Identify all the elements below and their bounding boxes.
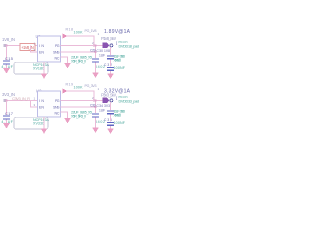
junction PG output	[93, 45, 95, 47]
svg-text:1.89V@1A: 1.89V@1A	[104, 29, 131, 35]
junction input node	[6, 45, 8, 47]
ground U2	[41, 129, 47, 134]
wire sense vertical	[95, 46, 97, 59]
input port marker	[3, 44, 7, 47]
svg-text:IN: IN	[39, 99, 44, 103]
ground right branch	[107, 74, 113, 79]
wire output net	[61, 45, 103, 47]
ground sense cap	[92, 73, 98, 78]
wire U1 gnd stem	[43, 62, 45, 74]
ground left input cap	[3, 123, 10, 129]
ground sense cap	[92, 128, 98, 133]
offpage port output	[103, 98, 110, 103]
svg-text:1UF: 1UF	[99, 108, 105, 112]
callout box U2	[14, 117, 48, 129]
svg-text:EN: EN	[39, 51, 44, 55]
capacitor C15	[3, 61, 10, 62]
wire sense cap to gnd	[95, 118, 97, 128]
svg-text:PG_1V8: PG_1V8	[85, 29, 97, 33]
svg-text:+1V8_IN: +1V8_IN	[21, 45, 34, 50]
svg-text:1V8: 1V8	[104, 49, 110, 53]
svg-text:PG: PG	[55, 44, 60, 48]
svg-text:NC: NC	[55, 111, 60, 115]
svg-text:X5R_6R3_0: X5R_6R3_0	[71, 59, 86, 63]
svg-text:C33: C33	[90, 104, 96, 108]
wire EN tie jog	[31, 46, 38, 53]
ground NC pin	[64, 118, 70, 123]
regulator U2	[38, 91, 61, 117]
svg-text:R18: R18	[66, 28, 74, 32]
svg-text:3V3: 3V3	[104, 104, 110, 108]
testpoint circle	[110, 99, 113, 102]
capacitor C17	[3, 116, 10, 117]
capacitor C29	[92, 59, 99, 60]
wire cap to gnd	[6, 120, 8, 123]
svg-text:X5R6V3: X5R6V3	[114, 114, 122, 118]
svg-text:SNS: SNS	[53, 105, 60, 109]
svg-text:C17: C17	[5, 111, 14, 116]
wire right branch	[110, 47, 112, 55]
wire left cap branch	[6, 46, 8, 61]
capacitor C32	[107, 67, 114, 68]
svg-text:P3V3_SW: P3V3_SW	[101, 93, 116, 98]
svg-text:C29: C29	[90, 49, 96, 53]
svg-text:EN: EN	[39, 106, 44, 110]
svg-text:SNS: SNS	[53, 50, 60, 54]
junction output sense	[95, 100, 97, 102]
ground NC pin	[64, 63, 70, 68]
wire right branch	[110, 102, 112, 110]
svg-text:XV330: XV330	[33, 122, 44, 126]
svg-text:mon: mon	[119, 40, 128, 44]
svg-text:NC: NC	[55, 56, 60, 60]
power symbol PG pullup	[63, 89, 68, 94]
wire input net	[7, 100, 38, 102]
svg-text:100K: 100K	[74, 86, 84, 90]
callout box U1	[14, 62, 48, 74]
wire PG net	[67, 36, 95, 46]
capacitor C36	[107, 122, 114, 123]
junction FB sense	[95, 51, 97, 53]
wire EN tie jog	[31, 101, 38, 108]
regulator U1	[38, 36, 61, 62]
wire U2 gnd stem	[43, 117, 45, 129]
offpage port output	[103, 43, 110, 48]
wire right branch gnd	[110, 126, 112, 129]
svg-text:100NF: 100NF	[114, 121, 126, 125]
svg-text:DVDD33_pad: DVDD33_pad	[119, 99, 140, 103]
ground right branch	[107, 129, 113, 134]
svg-text:C15: C15	[5, 56, 14, 61]
svg-text:IN: IN	[39, 44, 44, 48]
wire PG net	[67, 91, 95, 101]
capacitor C35	[107, 110, 114, 111]
wire left cap branch	[6, 101, 8, 116]
svg-text:C3V3_IN_R: C3V3_IN_R	[12, 96, 30, 101]
svg-text:mon: mon	[119, 95, 128, 99]
svg-text:X5R6V3: X5R6V3	[114, 59, 122, 63]
wire between caps	[110, 59, 112, 66]
svg-text:1UF: 1UF	[99, 53, 105, 57]
svg-text:DVDD18_pad: DVDD18_pad	[119, 44, 140, 48]
wire FB net	[61, 106, 96, 108]
ground left input cap	[3, 68, 10, 74]
capacitor C31	[107, 55, 114, 56]
input port marker	[3, 99, 7, 102]
svg-text:PG: PG	[55, 99, 60, 103]
junction input node	[6, 100, 8, 102]
testpoint circle	[110, 44, 113, 47]
svg-text:100NF: 100NF	[114, 66, 126, 70]
junction PG output	[93, 100, 95, 102]
wire input net	[7, 45, 38, 47]
svg-text:XV180: XV180	[33, 67, 44, 71]
wire sense vertical	[95, 101, 97, 114]
wire right branch gnd	[110, 71, 112, 74]
svg-text:C34: C34	[97, 104, 104, 108]
wire NC pin to gnd	[61, 57, 68, 63]
junction FB sense	[95, 106, 97, 108]
wire cap to gnd	[6, 65, 8, 68]
wire output net	[61, 100, 103, 102]
power symbol PG pullup	[63, 34, 68, 39]
junction output sense	[95, 45, 97, 47]
svg-text:PG_3V3: PG_3V3	[85, 84, 97, 88]
svg-text:X5R_6R3_0: X5R_6R3_0	[71, 114, 86, 118]
svg-text:R19: R19	[66, 83, 74, 87]
net label box +1V8_IN	[20, 44, 35, 51]
ground U1	[41, 74, 47, 79]
svg-text:P1V8_SW: P1V8_SW	[101, 36, 116, 41]
wire sense cap to gnd	[95, 63, 97, 73]
wire NC pin to gnd	[61, 112, 68, 118]
capacitor C33	[92, 114, 99, 115]
svg-text:C30: C30	[97, 49, 104, 53]
wire between caps	[110, 114, 112, 121]
svg-text:100K: 100K	[74, 31, 84, 35]
wire FB net	[61, 51, 96, 53]
svg-text:1V8_IN: 1V8_IN	[2, 37, 15, 42]
